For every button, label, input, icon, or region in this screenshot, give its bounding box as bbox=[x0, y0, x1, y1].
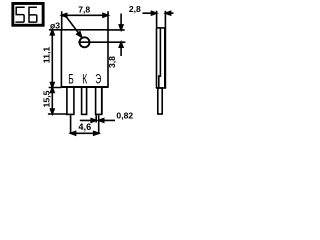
lead label B (base) bbox=[68, 72, 74, 87]
dimension 4,6 line bbox=[71, 132, 99, 134]
dimension 2,8 line bbox=[143, 12, 174, 14]
svg-text:ø3: ø3 bbox=[50, 20, 60, 30]
bottom extension line under lead 1 bbox=[70, 115, 72, 134]
dimension 2,8 extension lines bbox=[157, 11, 166, 28]
svg-text:4,6: 4,6 bbox=[78, 122, 91, 132]
dimension 7,8 line bbox=[62, 14, 108, 16]
svg-text:К: К bbox=[82, 72, 87, 87]
digit 5 bbox=[15, 7, 24, 22]
svg-text:0,82: 0,82 bbox=[116, 111, 133, 121]
lead label K (collector) bbox=[82, 72, 87, 87]
svg-text:11,1: 11,1 bbox=[41, 47, 51, 64]
lead label E (emitter) bbox=[95, 72, 101, 87]
svg-text:3,8: 3,8 bbox=[107, 56, 117, 68]
side view lead bbox=[158, 88, 162, 114]
lead 1 (front) bbox=[67, 87, 74, 114]
dimension 11,1 extension lines bbox=[49, 30, 62, 88]
leader line for hole diameter bbox=[66, 16, 79, 33]
dimension 0,82 line bbox=[80, 119, 115, 121]
svg-text:Э: Э bbox=[95, 72, 101, 87]
svg-text:Б: Б bbox=[68, 72, 74, 87]
dimension 11,1 line bbox=[51, 30, 53, 88]
svg-text:2,8: 2,8 bbox=[129, 4, 141, 14]
dimension 15,5 line bbox=[51, 88, 53, 115]
lead 3 (front) bbox=[96, 87, 102, 114]
svg-text:15,5: 15,5 bbox=[41, 90, 51, 107]
digit 6 bbox=[29, 7, 37, 22]
dimension 15,5 extension line bbox=[48, 113, 67, 115]
page number box 56 bbox=[13, 3, 43, 25]
dimension 3,8 line bbox=[120, 14, 122, 57]
dimension 3,8 extension lines bbox=[78, 30, 125, 42]
front view body bbox=[61, 30, 108, 87]
side view outline bbox=[157, 27, 167, 29]
lead 2 (front) bbox=[82, 87, 87, 114]
bottom extension lines under lead 3 bbox=[96, 115, 99, 134]
svg-text:7,8: 7,8 bbox=[78, 4, 90, 14]
dimension 7,8 extension lines bbox=[62, 11, 108, 30]
mounting hole bbox=[80, 37, 90, 47]
